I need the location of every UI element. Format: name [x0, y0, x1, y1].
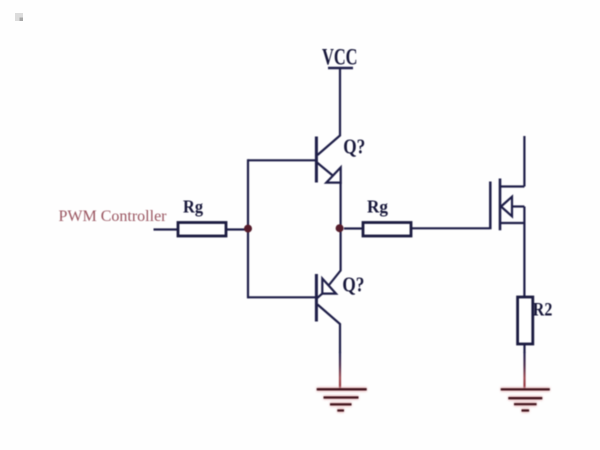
svg-text:Q?: Q? — [343, 134, 365, 158]
svg-text:VCC: VCC — [322, 45, 358, 70]
svg-text:PWM Controller: PWM Controller — [59, 208, 168, 225]
svg-text:Rg: Rg — [367, 197, 388, 217]
svg-text:Rg: Rg — [183, 197, 203, 217]
svg-text:Q?: Q? — [342, 273, 364, 297]
svg-text:R2: R2 — [533, 299, 553, 320]
